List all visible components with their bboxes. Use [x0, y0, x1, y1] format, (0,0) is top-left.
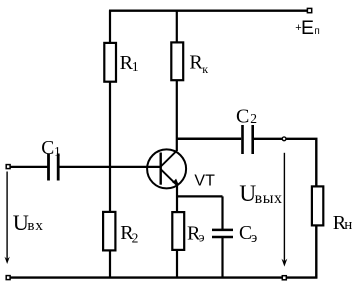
label +Eп	[295, 17, 320, 39]
terminal +Eп	[307, 8, 311, 12]
terminal input (top)	[6, 165, 10, 169]
resistor R1	[104, 43, 116, 82]
label VT	[194, 172, 215, 189]
wire bottom rail	[9, 276, 317, 278]
svg-text:э: э	[199, 230, 205, 245]
label Rн	[333, 212, 353, 234]
svg-text:C: C	[236, 105, 249, 127]
wire C1 to base	[60, 166, 161, 168]
resistor Rэ	[172, 212, 184, 250]
label Rк	[189, 51, 208, 76]
label Rэ	[187, 223, 205, 245]
wire collector branch vertical	[176, 10, 178, 151]
wire input to C1	[10, 166, 48, 168]
node output top	[282, 137, 286, 141]
resistor R2	[103, 212, 115, 251]
svg-text:вых: вых	[255, 190, 283, 207]
wire below Rэ to ground	[176, 251, 178, 278]
svg-text:1: 1	[132, 59, 139, 74]
label C1	[41, 138, 60, 159]
svg-text:1: 1	[54, 144, 61, 159]
label Uвх	[13, 210, 44, 235]
label Cэ	[239, 223, 257, 246]
capacitor Cэ	[212, 230, 233, 237]
svg-text:п: п	[314, 26, 319, 37]
arrow Uвх	[5, 172, 10, 265]
svg-text:вх: вх	[27, 218, 43, 234]
transistor VT	[147, 149, 186, 188]
svg-text:2: 2	[132, 230, 139, 245]
resistor Rн	[312, 186, 323, 225]
svg-text:Е: Е	[301, 17, 314, 39]
svg-text:U: U	[13, 210, 29, 235]
arrow Uвых	[282, 153, 288, 267]
svg-text:C: C	[41, 138, 54, 159]
svg-text:н: н	[344, 217, 352, 233]
capacitor C2	[243, 125, 253, 154]
wire emitter vertical	[176, 186, 178, 212]
svg-text:VT: VT	[194, 172, 215, 189]
label R1	[120, 52, 139, 74]
resistor Rк	[171, 42, 183, 80]
wire C2 to load corner	[254, 138, 316, 279]
label R2	[120, 222, 138, 246]
wire collector to C2	[177, 138, 241, 141]
node output bottom	[282, 276, 286, 280]
capacitor C1	[49, 154, 59, 181]
wire below Cэ to ground	[221, 237, 223, 278]
wire left bias branch (R1/R2 vertical)	[109, 10, 111, 278]
svg-text:2: 2	[250, 111, 257, 126]
wire top supply rail	[109, 9, 309, 11]
svg-text:к: к	[202, 62, 208, 76]
svg-text:э: э	[251, 230, 257, 246]
terminal input (bottom)	[6, 276, 10, 280]
label C2	[236, 105, 257, 127]
label Uвых	[239, 181, 282, 207]
wire emitter to Cэ	[177, 196, 223, 229]
